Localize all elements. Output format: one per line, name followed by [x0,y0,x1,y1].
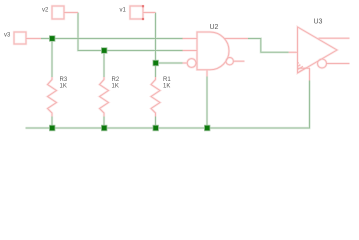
node junction v1 net / R1 top [153,60,159,66]
svg-text:R1: R1 [163,77,171,83]
node junction rail / R1 bottom [153,125,159,131]
component halo layer [14,6,350,117]
svg-text:U3: U3 [314,18,323,25]
svg-text:R2: R2 [112,77,120,83]
wire core layer [26,13,310,129]
terminal v1 origin markers [142,5,144,20]
svg-text:1K: 1K [163,83,170,89]
svg-text:v1: v1 [120,8,127,14]
svg-text:R3: R3 [60,77,68,83]
svg-text:v2: v2 [42,8,49,14]
node junction v2 net / R2 top [101,48,107,54]
svg-text:1K: 1K [112,83,119,89]
svg-text:1K: 1K [60,83,67,89]
node junction rail / U2 bottom pin [204,125,210,131]
wire halo layer [26,13,310,129]
node junction v3 net / R3 top [49,36,55,42]
svg-text:v3: v3 [4,32,11,38]
svg-text:U2: U2 [210,24,219,31]
node junction rail / R3 bottom [49,125,55,131]
node junction rail / R2 bottom [101,125,107,131]
component core layer [14,6,350,117]
